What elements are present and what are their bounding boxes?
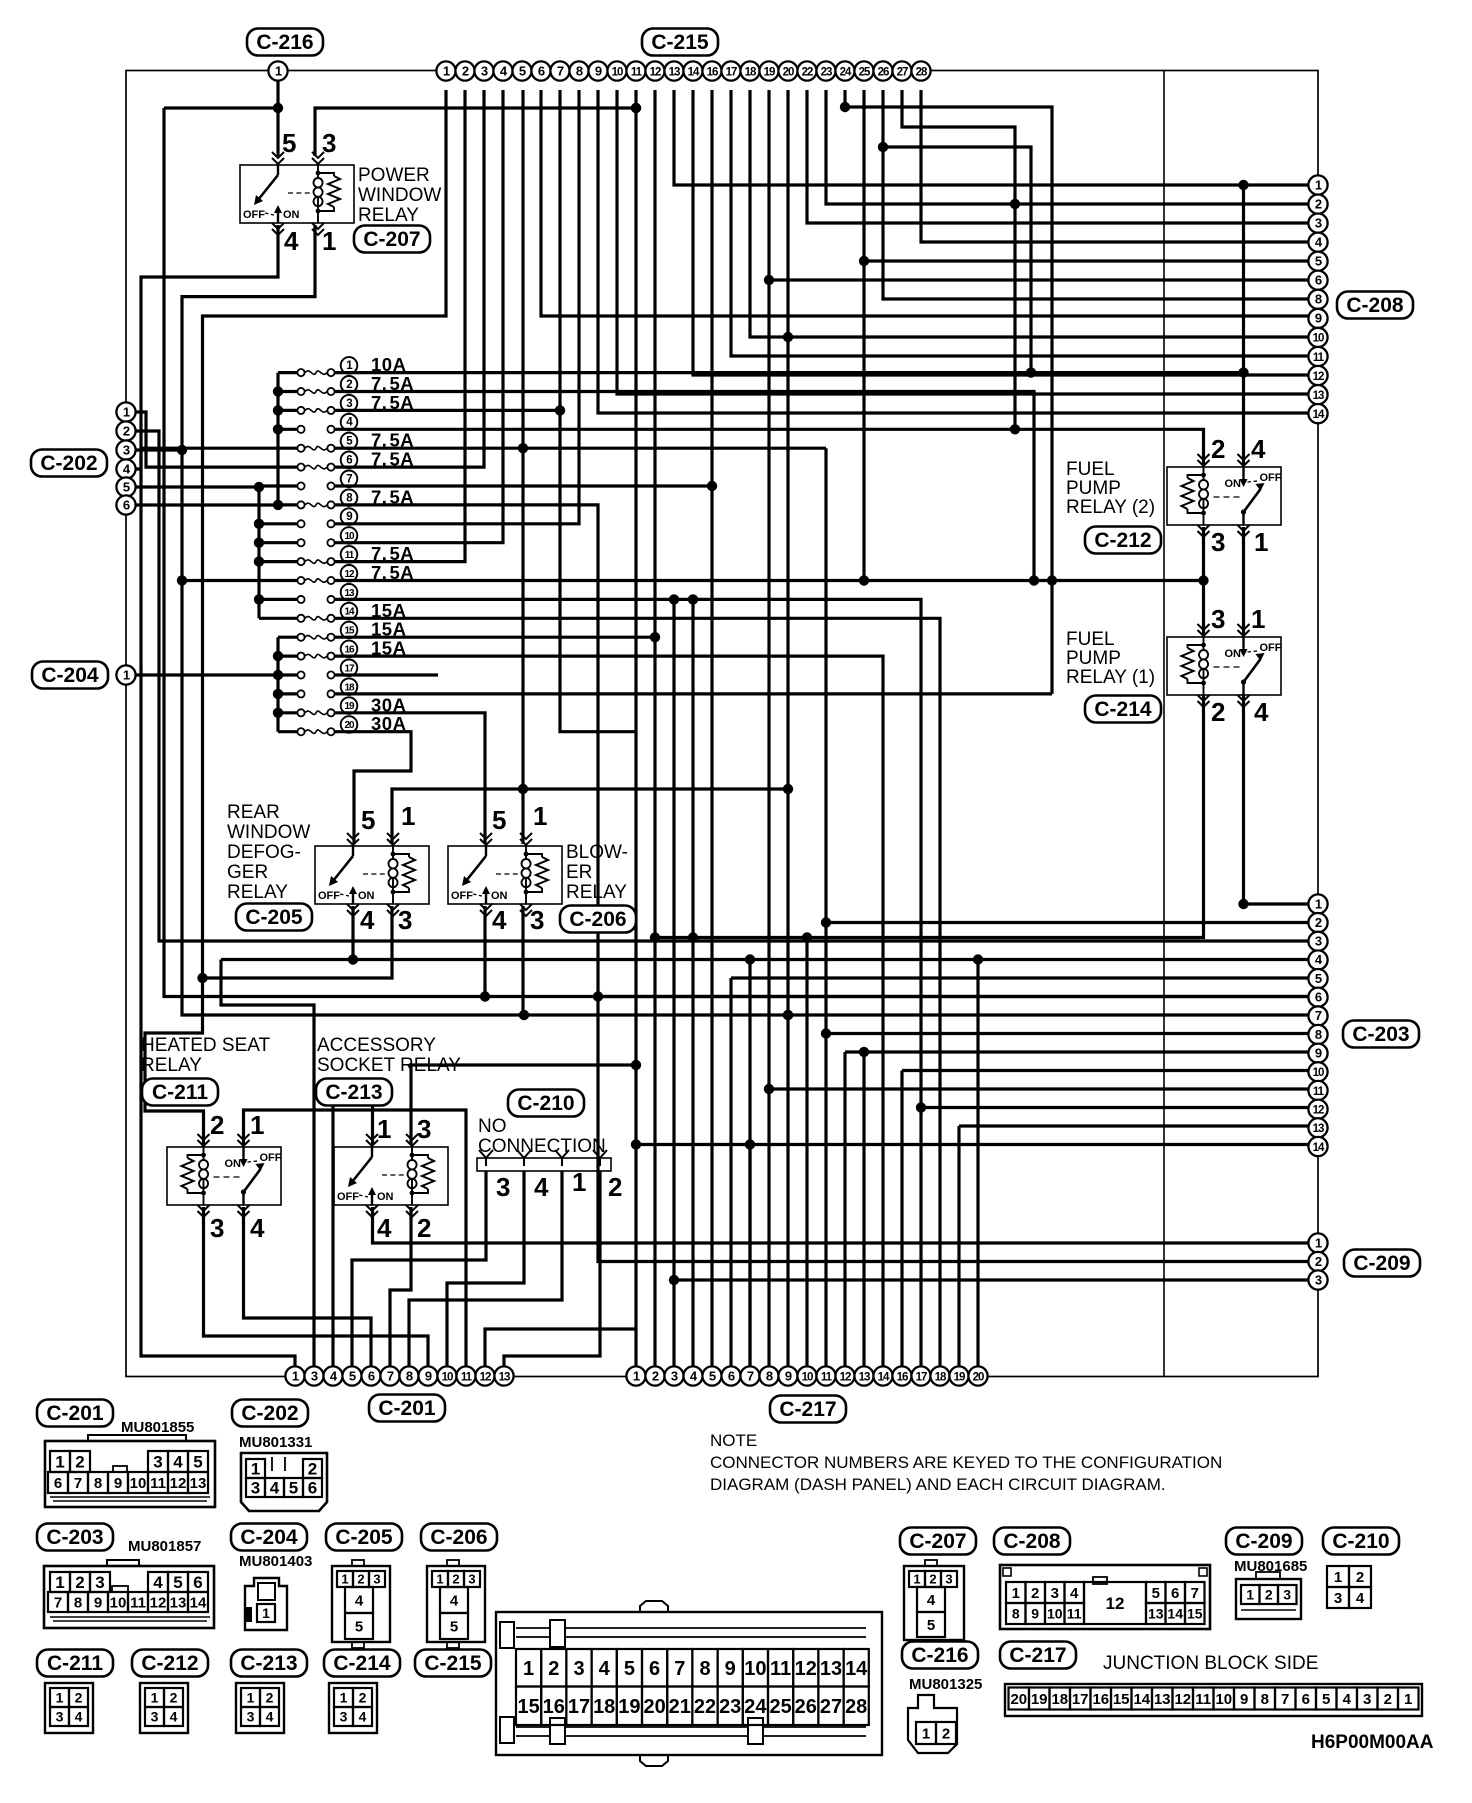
svg-text:OFF: OFF bbox=[1260, 642, 1282, 654]
svg-text:ON: ON bbox=[1225, 648, 1242, 660]
wire C-215 pin17 to C-208 pin11 bbox=[731, 90, 1318, 356]
svg-text:10: 10 bbox=[1313, 333, 1324, 345]
svg-text:6: 6 bbox=[368, 1368, 375, 1383]
wire C-217 pin7 riser bbox=[748, 960, 751, 1368]
svg-text:27: 27 bbox=[897, 66, 908, 78]
svg-text:1: 1 bbox=[523, 1658, 534, 1680]
svg-text:3: 3 bbox=[1363, 1691, 1371, 1708]
svg-text:10: 10 bbox=[744, 1658, 766, 1680]
svg-text:3: 3 bbox=[251, 1479, 260, 1498]
wire C-215 pin3 to fuse6 bbox=[362, 90, 484, 467]
svg-text:1: 1 bbox=[292, 1368, 299, 1383]
thin inner boundary bbox=[1163, 71, 1165, 1376]
relay C-207 switch bbox=[277, 165, 279, 175]
svg-text:1: 1 bbox=[1404, 1691, 1412, 1708]
wire fuse14 to C-217 pin18 bbox=[362, 618, 940, 1367]
svg-text:2: 2 bbox=[1031, 1585, 1039, 1602]
svg-text:OFF: OFF bbox=[318, 890, 340, 902]
svg-text:6: 6 bbox=[123, 497, 130, 512]
wire fuse bus C bbox=[276, 637, 279, 732]
wire relay C-207 pin4 down left side to C-201 pin1 bbox=[141, 225, 295, 1367]
svg-text:12: 12 bbox=[1106, 1594, 1125, 1613]
wire heated seat relay pin3 to C-201 pin9 bbox=[204, 1207, 429, 1367]
svg-text:24: 24 bbox=[840, 66, 852, 78]
svg-text:7: 7 bbox=[1315, 1008, 1322, 1023]
svg-text:13: 13 bbox=[669, 66, 680, 78]
legend connector C-204 bbox=[231, 1524, 307, 1551]
wire C-215 pin13 to C-208 pin1 bbox=[674, 90, 1318, 185]
svg-text:7: 7 bbox=[1191, 1585, 1199, 1602]
svg-text:4: 4 bbox=[75, 1709, 83, 1725]
fuse 9 bbox=[297, 520, 304, 527]
svg-text:WINDOW: WINDOW bbox=[227, 822, 310, 843]
svg-text:5: 5 bbox=[282, 128, 296, 158]
wire C-215 pin26 to C-208 pin8 bbox=[883, 90, 1318, 299]
C-208 pin 5 bbox=[1308, 252, 1327, 271]
svg-text:C-217: C-217 bbox=[779, 1398, 836, 1421]
svg-text:12: 12 bbox=[150, 1594, 167, 1611]
fuse 16 bbox=[297, 653, 304, 660]
wire C-215 pin1 down to heated seat relay pin2 bbox=[145, 90, 446, 1147]
wire C-203 pin5 partial line bbox=[731, 976, 1318, 979]
wire C-215 pin22 to C-208 pin3 bbox=[807, 90, 1318, 223]
svg-text:2: 2 bbox=[359, 1690, 367, 1706]
svg-text:4: 4 bbox=[360, 905, 375, 935]
svg-text:C-208: C-208 bbox=[1346, 294, 1404, 317]
svg-text:5: 5 bbox=[361, 805, 375, 835]
wire C-203 pin1 line bbox=[1241, 902, 1318, 905]
wire fuse18 line bbox=[362, 692, 1052, 695]
svg-text:C-212: C-212 bbox=[141, 1652, 198, 1675]
wire fuse12 to fuel pump relay pins 3 bbox=[362, 579, 1204, 582]
svg-text:2: 2 bbox=[929, 1572, 936, 1587]
svg-text:10: 10 bbox=[344, 531, 355, 542]
svg-text:C-208: C-208 bbox=[1003, 1530, 1061, 1553]
svg-text:4: 4 bbox=[377, 1213, 392, 1243]
svg-text:C-215: C-215 bbox=[651, 31, 709, 54]
svg-text:5: 5 bbox=[709, 1368, 716, 1383]
svg-text:MU801403: MU801403 bbox=[239, 1553, 312, 1570]
no-connection block C-210 bbox=[508, 1090, 584, 1117]
relay C-206 switch bbox=[485, 846, 487, 856]
svg-text:23: 23 bbox=[719, 1696, 741, 1718]
svg-text:8: 8 bbox=[766, 1368, 773, 1383]
svg-text:2: 2 bbox=[1211, 697, 1225, 727]
svg-text:27: 27 bbox=[820, 1696, 842, 1718]
fuse 2 bbox=[297, 388, 304, 395]
wire fuse bus B bbox=[257, 486, 260, 618]
wire C-217 pin10 riser bbox=[805, 938, 808, 1368]
svg-text:5: 5 bbox=[927, 1617, 935, 1634]
svg-text:6: 6 bbox=[308, 1479, 317, 1498]
wire C-202 pin4 to fuse5 bbox=[136, 448, 299, 469]
relay C-213 resistor bbox=[422, 1158, 434, 1189]
wire accessory relay pin1 to C-201 pin4 bbox=[333, 1090, 373, 1367]
svg-text:1: 1 bbox=[251, 1460, 260, 1479]
svg-text:2: 2 bbox=[308, 1460, 317, 1479]
svg-text:11: 11 bbox=[770, 1658, 791, 1680]
svg-text:C-214: C-214 bbox=[1094, 698, 1152, 721]
fuse 7 bbox=[297, 482, 304, 489]
wire fuse16 to C-217 pin14 bbox=[362, 656, 883, 1367]
legend connector C-215 bbox=[415, 1650, 491, 1677]
svg-text:11: 11 bbox=[461, 1371, 473, 1383]
svg-text:3: 3 bbox=[247, 1709, 255, 1725]
svg-text:16: 16 bbox=[707, 66, 718, 78]
relay C-213 coil bbox=[408, 1160, 417, 1188]
svg-text:20: 20 bbox=[1010, 1691, 1027, 1708]
svg-text:13: 13 bbox=[1313, 390, 1324, 402]
svg-text:9: 9 bbox=[1240, 1691, 1248, 1708]
svg-text:5: 5 bbox=[289, 1479, 298, 1498]
connector C-217 bottom bbox=[770, 1396, 846, 1423]
wire fuse17 stub right bbox=[362, 673, 438, 676]
svg-text:1: 1 bbox=[1246, 1587, 1254, 1603]
wire fuse19 to blower relay pin5 bbox=[362, 713, 485, 844]
svg-text:18: 18 bbox=[344, 682, 355, 693]
svg-text:1: 1 bbox=[151, 1690, 159, 1706]
svg-text:3: 3 bbox=[1315, 1272, 1322, 1287]
fuse 3 bbox=[297, 407, 304, 414]
svg-text:FUEL: FUEL bbox=[1066, 459, 1115, 480]
legend connector C-208 bbox=[994, 1528, 1070, 1555]
svg-text:13: 13 bbox=[820, 1658, 842, 1680]
svg-text:OFF: OFF bbox=[451, 890, 473, 902]
wire C-202 pin6 to fuse8 bbox=[136, 503, 278, 506]
svg-text:11: 11 bbox=[1195, 1691, 1211, 1708]
wire C-215 pin25 down, branch to C-208 pin5 bbox=[862, 90, 865, 581]
svg-text:RELAY: RELAY bbox=[358, 205, 419, 226]
svg-text:4: 4 bbox=[1254, 697, 1269, 727]
wire C-217 pin7 riser bbox=[748, 1145, 751, 1368]
svg-text:7. 5A: 7. 5A bbox=[371, 430, 414, 451]
wire fuse bus A bbox=[276, 373, 279, 505]
svg-text:4: 4 bbox=[359, 1709, 367, 1725]
fuse 8 bbox=[297, 501, 304, 508]
C-208 pin 2 bbox=[1308, 195, 1327, 214]
svg-text:2: 2 bbox=[357, 1572, 364, 1587]
svg-text:14: 14 bbox=[1313, 409, 1325, 421]
svg-text:MU801331: MU801331 bbox=[239, 1434, 312, 1451]
svg-text:8: 8 bbox=[1315, 1027, 1322, 1042]
svg-text:4: 4 bbox=[270, 1479, 280, 1498]
svg-text:19: 19 bbox=[618, 1696, 640, 1718]
wire fuse3 line bbox=[362, 409, 560, 412]
svg-text:RELAY (1): RELAY (1) bbox=[1066, 667, 1155, 688]
svg-text:3: 3 bbox=[95, 1573, 104, 1592]
svg-text:20: 20 bbox=[344, 720, 355, 731]
svg-text:1: 1 bbox=[55, 1453, 64, 1472]
svg-text:7: 7 bbox=[747, 1368, 754, 1383]
svg-text:5: 5 bbox=[1315, 971, 1322, 986]
wire NC stub1 to C-201 pin8 bbox=[409, 1171, 562, 1367]
connector C-202 left bbox=[31, 450, 107, 477]
svg-text:2: 2 bbox=[75, 1573, 84, 1592]
legend connector C-206 bbox=[421, 1524, 497, 1551]
svg-text:12: 12 bbox=[650, 66, 661, 78]
svg-text:4: 4 bbox=[266, 1709, 274, 1725]
fuse 19 bbox=[297, 709, 304, 716]
wire C-203 pin4 line long to defogger pin4 bbox=[221, 958, 1318, 961]
wire C-215 pin19 to C-217 pin8 bbox=[767, 90, 770, 1367]
legend connector C-212 bbox=[132, 1650, 208, 1677]
wire C-215 pin12 to C-217 pin2 bbox=[653, 90, 656, 1367]
wire branch fuse13 to C-217 pin3 bbox=[672, 599, 675, 1367]
svg-text:DEFOG-: DEFOG- bbox=[227, 842, 301, 863]
connector C-216 top bbox=[247, 29, 323, 56]
connector C-204 left bbox=[32, 662, 108, 689]
relay C-214 resistor bbox=[1182, 648, 1194, 679]
svg-text:5: 5 bbox=[123, 479, 130, 494]
svg-text:3: 3 bbox=[373, 1572, 380, 1587]
wire C-215 pin24 staircase to fuse18 bbox=[845, 90, 1052, 694]
svg-text:ON: ON bbox=[225, 1158, 242, 1170]
svg-text:16: 16 bbox=[344, 645, 355, 656]
relay C-212 coil bbox=[1199, 480, 1208, 508]
svg-text:RELAY: RELAY bbox=[566, 882, 627, 903]
wire C-215 pin20 to C-217 pin9 bbox=[786, 90, 789, 1367]
C-208 pin 6 bbox=[1308, 271, 1327, 290]
fuse 11 bbox=[297, 558, 304, 565]
wire fuse15 line bbox=[362, 636, 655, 639]
C-208 pin 9 bbox=[1308, 309, 1327, 328]
legend connector C-213 bbox=[231, 1650, 307, 1677]
svg-text:1: 1 bbox=[922, 1725, 930, 1742]
wire C-208 pin6 line bbox=[769, 278, 1318, 281]
fuse 18 bbox=[297, 690, 304, 697]
wire C-204 pin1 to fuse bus C bbox=[136, 673, 278, 676]
C-208 pin 1 bbox=[1308, 175, 1327, 194]
svg-text:GER: GER bbox=[227, 862, 268, 883]
svg-text:4: 4 bbox=[492, 905, 507, 935]
svg-text:2: 2 bbox=[608, 1172, 622, 1202]
svg-text:C-209: C-209 bbox=[1235, 1530, 1292, 1553]
svg-text:1: 1 bbox=[1315, 177, 1322, 192]
svg-text:3: 3 bbox=[496, 1172, 510, 1202]
svg-text:H6P00M00AA: H6P00M00AA bbox=[1311, 1732, 1434, 1753]
svg-text:1: 1 bbox=[401, 801, 415, 831]
connector C-209 right bbox=[1344, 1250, 1420, 1277]
wire heated seat relay pin4 to C-201 pin6 bbox=[244, 1207, 372, 1367]
relay C-212 resistor bbox=[1182, 478, 1194, 509]
svg-text:8: 8 bbox=[1261, 1691, 1269, 1708]
svg-text:PUMP: PUMP bbox=[1066, 648, 1121, 669]
svg-text:9: 9 bbox=[346, 511, 352, 523]
svg-text:17: 17 bbox=[916, 1371, 927, 1383]
svg-text:C-216: C-216 bbox=[256, 31, 313, 54]
svg-text:ON: ON bbox=[377, 1191, 394, 1203]
svg-text:2: 2 bbox=[1315, 1254, 1322, 1269]
svg-text:1: 1 bbox=[436, 1572, 443, 1587]
svg-text:6: 6 bbox=[538, 63, 545, 78]
svg-text:5: 5 bbox=[1152, 1585, 1160, 1602]
svg-text:2: 2 bbox=[1211, 434, 1225, 464]
svg-text:14: 14 bbox=[190, 1594, 207, 1611]
svg-text:ON: ON bbox=[283, 209, 300, 221]
svg-text:OFF: OFF bbox=[260, 1152, 282, 1164]
svg-text:10: 10 bbox=[1215, 1691, 1232, 1708]
svg-text:2: 2 bbox=[1384, 1691, 1392, 1708]
svg-text:1: 1 bbox=[1251, 604, 1265, 634]
svg-text:8: 8 bbox=[699, 1658, 710, 1680]
svg-text:11: 11 bbox=[345, 550, 355, 561]
svg-text:C-205: C-205 bbox=[335, 1526, 393, 1549]
svg-text:FUEL: FUEL bbox=[1066, 629, 1115, 650]
svg-text:ON: ON bbox=[491, 890, 508, 902]
svg-text:16: 16 bbox=[1092, 1691, 1109, 1708]
wire accessory relay pin2 to C-201 pin7 bbox=[390, 1207, 411, 1367]
svg-text:5: 5 bbox=[173, 1573, 182, 1592]
svg-text:5: 5 bbox=[355, 1618, 363, 1635]
svg-text:2: 2 bbox=[1315, 196, 1322, 211]
svg-text:19: 19 bbox=[954, 1371, 965, 1383]
svg-text:10: 10 bbox=[802, 1371, 813, 1383]
svg-text:14: 14 bbox=[878, 1371, 890, 1383]
svg-text:2: 2 bbox=[346, 379, 352, 391]
relay C-205 resistor bbox=[403, 857, 415, 888]
wire C-209 pin2 line bbox=[598, 997, 1318, 1262]
svg-text:3: 3 bbox=[1211, 604, 1225, 634]
relay C-212 box bbox=[1167, 467, 1281, 525]
svg-text:13: 13 bbox=[170, 1594, 187, 1611]
svg-text:7: 7 bbox=[74, 1475, 82, 1492]
svg-text:9: 9 bbox=[94, 1594, 102, 1611]
svg-text:12: 12 bbox=[1174, 1691, 1191, 1708]
svg-text:7. 5A: 7. 5A bbox=[371, 543, 414, 564]
wire defogger pin3 joins pin1 net bbox=[203, 906, 393, 978]
wire C-202 pin5 to fuse bus B bbox=[136, 485, 259, 488]
junction block outer border bbox=[126, 71, 1318, 1377]
svg-text:7: 7 bbox=[674, 1658, 685, 1680]
svg-text:9: 9 bbox=[1315, 311, 1322, 326]
wire C-217 pin20 riser bbox=[976, 960, 979, 1368]
svg-text:JUNCTION BLOCK SIDE: JUNCTION BLOCK SIDE bbox=[1103, 1653, 1318, 1674]
svg-text:2: 2 bbox=[170, 1690, 178, 1706]
svg-text:C-201: C-201 bbox=[378, 1397, 436, 1420]
relay C-213 box bbox=[334, 1147, 448, 1205]
svg-text:6: 6 bbox=[1171, 1585, 1179, 1602]
svg-text:21: 21 bbox=[669, 1696, 691, 1718]
svg-text:1: 1 bbox=[533, 801, 547, 831]
wire C-215 pin11 to C-217 pin1 bbox=[634, 90, 637, 1367]
fuse 6 bbox=[297, 464, 304, 471]
wire C-215 pin10 to C-208 pin13 bbox=[617, 90, 1318, 394]
fuse 13 bbox=[297, 596, 304, 603]
wire C-209 pin1 line from accessory relay pin4 bbox=[373, 1207, 1319, 1243]
svg-text:4: 4 bbox=[1070, 1585, 1079, 1602]
svg-text:11: 11 bbox=[150, 1475, 166, 1492]
connector C-215 top bbox=[642, 29, 718, 56]
C-208 pin 12 bbox=[1308, 366, 1327, 385]
svg-text:C-210: C-210 bbox=[1332, 1530, 1389, 1553]
svg-text:10: 10 bbox=[110, 1594, 127, 1611]
svg-text:5: 5 bbox=[450, 1618, 458, 1635]
svg-text:1: 1 bbox=[275, 63, 282, 78]
fuse left stubs bbox=[278, 371, 299, 374]
wire heated seat relay pin1 to C-201 pin11 bbox=[244, 1110, 467, 1367]
svg-text:10: 10 bbox=[442, 1371, 453, 1383]
svg-text:11: 11 bbox=[631, 66, 643, 78]
svg-text:C-213: C-213 bbox=[325, 1081, 382, 1104]
wire C-203 pin10 to C-217 pin16 bbox=[902, 1069, 1318, 1072]
svg-text:1: 1 bbox=[572, 1167, 586, 1197]
svg-text:26: 26 bbox=[878, 66, 889, 78]
svg-text:22: 22 bbox=[802, 66, 813, 78]
svg-text:13: 13 bbox=[1154, 1691, 1171, 1708]
svg-text:ON: ON bbox=[1225, 478, 1242, 490]
legend connector C-209 bbox=[1226, 1528, 1302, 1555]
svg-text:C-204: C-204 bbox=[240, 1526, 298, 1549]
svg-text:6: 6 bbox=[649, 1658, 660, 1680]
svg-text:3: 3 bbox=[1283, 1587, 1291, 1603]
wire blower pin4 down bbox=[483, 906, 486, 997]
svg-text:DIAGRAM (DASH PANEL) AND EACH: DIAGRAM (DASH PANEL) AND EACH CIRCUIT DI… bbox=[710, 1475, 1166, 1494]
svg-text:10: 10 bbox=[130, 1475, 147, 1492]
svg-text:10A: 10A bbox=[371, 354, 406, 375]
svg-text:ON: ON bbox=[358, 890, 375, 902]
connector C-203 right bbox=[1343, 1021, 1419, 1048]
svg-text:30A: 30A bbox=[371, 694, 406, 715]
svg-text:5: 5 bbox=[1315, 254, 1322, 269]
C-208 pin 3 bbox=[1308, 214, 1327, 233]
relay C-206 coil bbox=[522, 859, 531, 887]
legend connector C-210 bbox=[1323, 1528, 1399, 1555]
svg-text:7: 7 bbox=[387, 1368, 394, 1383]
svg-text:7: 7 bbox=[557, 63, 564, 78]
svg-text:CONNECTOR NUMBERS ARE KEYED TO: CONNECTOR NUMBERS ARE KEYED TO THE CONFI… bbox=[710, 1453, 1222, 1472]
svg-text:ER: ER bbox=[566, 862, 592, 883]
svg-text:30A: 30A bbox=[371, 713, 406, 734]
svg-text:3: 3 bbox=[346, 398, 352, 410]
svg-text:4: 4 bbox=[927, 1592, 936, 1609]
svg-text:HEATED SEAT: HEATED SEAT bbox=[141, 1035, 271, 1056]
wire C-209 pin3 line bbox=[674, 1278, 1318, 1281]
svg-text:6: 6 bbox=[346, 455, 352, 467]
svg-text:14: 14 bbox=[1167, 1606, 1183, 1622]
connector C-201 bottom bbox=[369, 1395, 445, 1422]
svg-text:5: 5 bbox=[1322, 1691, 1330, 1708]
legend connector C-207 bbox=[900, 1528, 976, 1555]
svg-text:13: 13 bbox=[859, 1371, 870, 1383]
fuse 1 bbox=[297, 369, 304, 376]
svg-text:1: 1 bbox=[377, 1114, 391, 1144]
svg-text:12: 12 bbox=[170, 1475, 187, 1492]
svg-text:C-206: C-206 bbox=[569, 908, 626, 931]
wire branch left from C-216 pin1 bbox=[164, 106, 278, 109]
svg-text:9: 9 bbox=[425, 1368, 432, 1383]
svg-text:4: 4 bbox=[1356, 1590, 1365, 1607]
svg-text:C-203: C-203 bbox=[46, 1526, 103, 1549]
svg-text:3: 3 bbox=[1315, 215, 1322, 230]
svg-text:C-203: C-203 bbox=[1352, 1023, 1409, 1046]
svg-text:13: 13 bbox=[1148, 1606, 1164, 1622]
svg-text:7: 7 bbox=[346, 473, 352, 485]
svg-text:3: 3 bbox=[1051, 1585, 1059, 1602]
svg-text:C-209: C-209 bbox=[1353, 1252, 1410, 1275]
svg-text:15: 15 bbox=[1187, 1606, 1203, 1622]
wire C-215 pin2 to fuse11 bbox=[362, 90, 465, 562]
svg-text:8: 8 bbox=[1012, 1606, 1020, 1622]
svg-text:13: 13 bbox=[344, 588, 355, 599]
svg-text:C-217: C-217 bbox=[1009, 1644, 1066, 1667]
svg-text:7. 5A: 7. 5A bbox=[371, 449, 414, 470]
svg-text:15A: 15A bbox=[371, 638, 406, 659]
relay C-214 switch bbox=[1242, 637, 1244, 651]
svg-text:4: 4 bbox=[173, 1453, 183, 1472]
C-208 pin 14 bbox=[1308, 404, 1327, 423]
svg-text:C-214: C-214 bbox=[333, 1652, 391, 1675]
svg-text:RELAY: RELAY bbox=[227, 882, 288, 903]
